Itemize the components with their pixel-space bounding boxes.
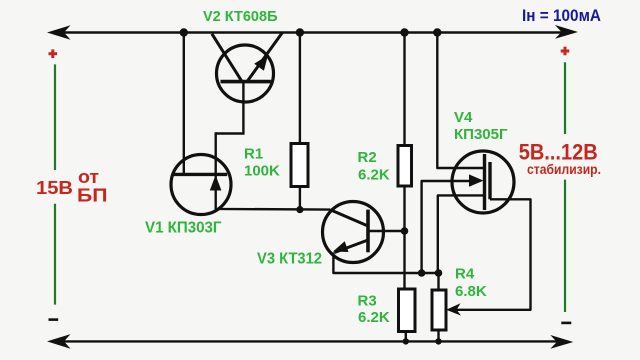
svg-text:V1 КП303Г: V1 КП303Г	[145, 220, 222, 237]
left battery plus	[49, 49, 58, 58]
wire V4 source loop to R4 wiper	[452, 199, 531, 309]
R3 bottom lead	[405, 332, 407, 342]
R2 bottom lead / line to R3	[403, 186, 405, 289]
svg-text:V2 КТ608Б: V2 КТ608Б	[203, 8, 278, 25]
node: bottom rail dot at R3	[403, 338, 409, 344]
wire top +rail	[56, 31, 566, 33]
svg-text:КП305Г: КП305Г	[454, 126, 508, 143]
node: dot R1 to V1-V3 wire	[296, 206, 303, 213]
left battery green line lower segment	[54, 204, 56, 305]
svg-text:6.2K: 6.2K	[358, 167, 390, 184]
node: dot V4 source / R4 to emitter wire	[435, 269, 443, 277]
R4 bottom lead	[437, 330, 439, 341]
transistor V3 КТ312	[323, 202, 439, 274]
node: top rail dot at R2	[400, 28, 408, 36]
R4 top lead	[437, 273, 439, 290]
R1 top lead	[299, 33, 301, 144]
svg-text:V3 КТ312: V3 КТ312	[257, 251, 322, 268]
R1 bottom lead	[299, 187, 301, 210]
left battery minus	[49, 318, 59, 321]
right battery plus	[561, 47, 570, 56]
svg-text:6.8K: 6.8K	[455, 283, 487, 300]
svg-text:R2: R2	[358, 149, 377, 166]
node: bottom rail dot at R4	[435, 338, 441, 344]
resistor R1	[291, 144, 308, 187]
right battery green line upper segment	[564, 62, 566, 134]
V4 gate arrowhead	[469, 174, 484, 186]
resistor R2	[398, 146, 412, 187]
resistor R4 (variable)	[432, 290, 446, 330]
R4 wiper arrowhead	[446, 303, 461, 315]
svg-text:R3: R3	[358, 293, 377, 310]
wire bottom -rail	[56, 340, 564, 342]
transistor V4 КП305Г	[422, 33, 514, 274]
right battery green line lower segment	[564, 180, 566, 312]
svg-text:100K: 100K	[244, 163, 280, 180]
svg-text:6.2K: 6.2K	[358, 309, 390, 326]
svg-text:БП: БП	[77, 186, 108, 206]
svg-text:15В: 15В	[36, 178, 73, 198]
resistor R3	[399, 289, 416, 332]
transistor V2 КТ608Б	[212, 32, 283, 133]
svg-text:V4: V4	[454, 109, 473, 126]
left battery green line upper segment	[54, 64, 56, 170]
bottom rail right arrowhead	[550, 335, 573, 349]
node: dot V3 base to R2R3 line	[401, 227, 409, 235]
svg-text:R1: R1	[244, 145, 263, 162]
top rail left arrowhead	[47, 25, 71, 40]
svg-text:R4: R4	[455, 266, 475, 283]
svg-text:от: от	[78, 167, 99, 187]
V1 gate arrowhead	[210, 175, 222, 191]
right battery minus	[561, 322, 571, 325]
bottom rail left arrowhead	[47, 334, 71, 349]
svg-text:стабилизир.: стабилизир.	[527, 161, 601, 177]
node: top rail dot at R1	[296, 28, 304, 36]
node: top rail dot at V4 drain	[433, 28, 441, 36]
transistor V1 КП303Г	[171, 33, 330, 215]
node: top rail dot at V1 gate	[180, 28, 188, 36]
node: dot V4 gate line to emitter wire	[418, 269, 426, 277]
svg-text:Iн = 100мА: Iн = 100мА	[522, 6, 601, 25]
top rail right arrowhead	[555, 25, 578, 39]
R2 top lead	[403, 33, 405, 146]
V2 emitter arrowhead	[254, 55, 268, 71]
V3 emitter arrowhead	[333, 241, 349, 252]
